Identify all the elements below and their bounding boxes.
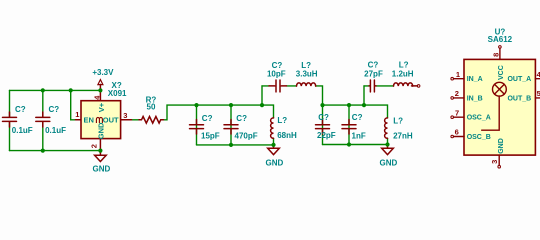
svg-text:GND: GND: [93, 164, 111, 173]
svg-text:IN_A: IN_A: [467, 76, 483, 83]
svg-text:0.1uF: 0.1uF: [45, 126, 66, 135]
svg-text:8: 8: [491, 53, 500, 57]
svg-text:C?: C?: [15, 105, 26, 114]
svg-text:1: 1: [75, 110, 79, 119]
svg-text:50: 50: [147, 103, 156, 112]
svg-text:IN_B: IN_B: [467, 95, 483, 102]
svg-text:SA612: SA612: [488, 35, 513, 44]
svg-text:C?: C?: [202, 114, 213, 123]
svg-text:GND: GND: [380, 158, 398, 167]
svg-text:EN: EN: [84, 115, 94, 124]
svg-text:C?: C?: [318, 113, 329, 122]
svg-text:+3.3V: +3.3V: [92, 68, 114, 77]
svg-text:7: 7: [455, 108, 459, 117]
svg-text:2: 2: [455, 89, 459, 98]
svg-text:C?: C?: [49, 105, 60, 114]
svg-text:470pF: 470pF: [235, 132, 258, 141]
svg-text:4: 4: [537, 70, 540, 79]
svg-text:L?: L?: [399, 61, 409, 70]
svg-text:GND: GND: [96, 122, 105, 139]
svg-text:6: 6: [455, 128, 459, 137]
svg-text:3: 3: [123, 111, 127, 120]
svg-text:1: 1: [456, 70, 460, 79]
svg-text:2: 2: [89, 144, 98, 148]
svg-text:L?: L?: [277, 116, 287, 125]
svg-text:3.3uH: 3.3uH: [296, 70, 318, 79]
svg-text:OUT_B: OUT_B: [507, 95, 531, 102]
svg-text:V+: V+: [97, 102, 106, 112]
svg-text:15pF: 15pF: [201, 132, 220, 141]
svg-text:27pF: 27pF: [364, 70, 383, 79]
svg-text:1.2uH: 1.2uH: [392, 70, 414, 79]
svg-text:27nH: 27nH: [393, 132, 413, 141]
svg-text:22pF: 22pF: [317, 131, 336, 140]
svg-text:3: 3: [490, 160, 499, 164]
svg-text:5: 5: [537, 89, 540, 98]
svg-text:GND: GND: [498, 138, 505, 154]
svg-text:OSC_B: OSC_B: [467, 134, 491, 141]
svg-text:OUT_A: OUT_A: [507, 76, 531, 83]
svg-text:VCC: VCC: [498, 65, 505, 80]
svg-text:OSC_A: OSC_A: [467, 115, 491, 122]
svg-text:10pF: 10pF: [267, 70, 286, 79]
svg-text:0.1uF: 0.1uF: [12, 126, 33, 135]
svg-text:X091: X091: [108, 89, 127, 98]
svg-text:C?: C?: [368, 61, 379, 70]
svg-text:C?: C?: [352, 113, 363, 122]
svg-text:1nF: 1nF: [352, 131, 366, 140]
svg-text:68nH: 68nH: [277, 131, 297, 140]
svg-text:L?: L?: [393, 117, 403, 126]
svg-text:GND: GND: [266, 158, 284, 167]
svg-text:C?: C?: [236, 114, 247, 123]
